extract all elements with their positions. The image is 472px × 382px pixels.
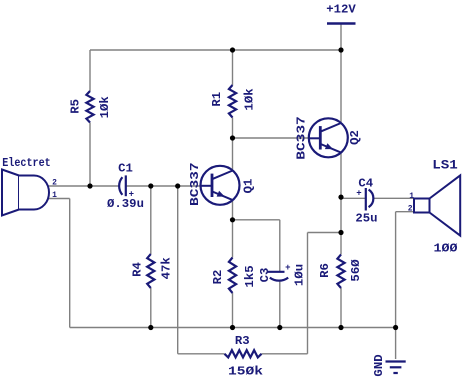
svg-text:Q2: Q2 <box>348 130 362 145</box>
svg-text:+: + <box>356 188 361 198</box>
svg-text:47k: 47k <box>159 257 173 280</box>
svg-text:C1: C1 <box>118 162 133 176</box>
svg-text:R6: R6 <box>318 263 332 278</box>
svg-text:Q1: Q1 <box>242 179 256 194</box>
svg-text:GND: GND <box>372 354 386 376</box>
svg-text:1: 1 <box>52 191 57 200</box>
svg-text:BC337: BC337 <box>295 116 309 160</box>
svg-text:BC337: BC337 <box>188 162 202 206</box>
svg-text:+12V: +12V <box>326 3 356 17</box>
svg-text:1: 1 <box>409 192 414 201</box>
svg-text:Ø.39u: Ø.39u <box>107 197 144 211</box>
svg-text:1Øk: 1Øk <box>243 88 257 111</box>
svg-text:C3: C3 <box>258 268 272 283</box>
svg-text:1Øk: 1Øk <box>98 96 112 119</box>
svg-text:2: 2 <box>408 204 413 213</box>
svg-text:15Øk: 15Øk <box>228 365 264 379</box>
svg-text:R3: R3 <box>235 334 250 348</box>
svg-text:R1: R1 <box>210 92 224 107</box>
svg-text:56Ø: 56Ø <box>349 259 363 282</box>
svg-text:2: 2 <box>52 179 57 188</box>
svg-text:R5: R5 <box>69 99 83 114</box>
svg-text:Electret: Electret <box>2 156 51 170</box>
svg-text:+: + <box>129 190 134 200</box>
svg-text:1Øu: 1Øu <box>292 264 306 286</box>
svg-text:1ØØ: 1ØØ <box>434 242 459 256</box>
svg-text:+: + <box>285 263 290 273</box>
svg-text:1k5: 1k5 <box>243 265 257 287</box>
svg-text:R2: R2 <box>211 270 225 285</box>
svg-text:LS1: LS1 <box>432 158 458 173</box>
svg-text:R4: R4 <box>131 262 145 277</box>
svg-text:25u: 25u <box>355 212 377 226</box>
